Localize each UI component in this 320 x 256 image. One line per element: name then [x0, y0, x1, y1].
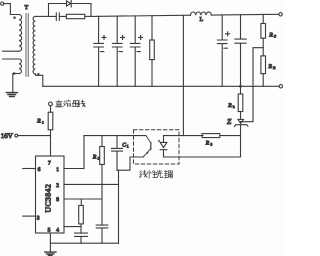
svg-text:Z: Z [227, 117, 232, 126]
IC UC3842 [36, 156, 65, 233]
snubber right edge [90, 4, 92, 17]
resistor snubber [66, 14, 85, 18]
wire divider tap [241, 48, 264, 122]
resistor bleed [151, 16, 153, 87]
pin 8 wire [64, 198, 102, 200]
terminal 16V [15, 134, 18, 137]
optocoupler dashed box [134, 130, 180, 164]
svg-text:1: 1 [56, 167, 59, 173]
svg-text:3: 3 [211, 143, 213, 147]
terminal DC bus [49, 102, 53, 106]
resistor RF [262, 14, 264, 55]
svg-text:R: R [268, 64, 273, 70]
pin 3 stub [23, 215, 36, 217]
ground bus wire [50, 242, 118, 244]
svg-text:F: F [274, 35, 276, 39]
capacitor Ct [75, 233, 88, 243]
性 [147, 171, 157, 179]
svg-text:4: 4 [56, 227, 59, 233]
svg-text:6: 6 [38, 167, 41, 173]
直 [56, 100, 63, 107]
capacitor C out1 [217, 15, 229, 86]
opto LED [160, 136, 167, 157]
inductor L [191, 12, 212, 15]
label 线性光耦 [140, 170, 173, 178]
capacitor C out2 [235, 15, 246, 87]
diode D snubber [67, 1, 72, 8]
input terminal [1, 2, 4, 5]
snubber top branch wire [49, 3, 92, 5]
wire 16V to pin7 node [18, 135, 51, 137]
wire R3 to zener node [221, 135, 241, 137]
pin 1 wire [64, 136, 84, 169]
wire secondary top to snubber [35, 15, 48, 17]
svg-text:1: 1 [127, 144, 129, 149]
node dot secondary bottom [37, 73, 39, 75]
top bus wire [91, 15, 191, 16]
node dot bus/Rb [239, 85, 242, 88]
svg-text:3: 3 [37, 216, 40, 222]
svg-text:R: R [92, 155, 97, 161]
svg-text:T: T [25, 5, 29, 11]
output terminal + [279, 13, 282, 16]
output terminal - [279, 85, 282, 88]
node dot primary bottom [13, 72, 15, 74]
capacitor C bulk3 [130, 16, 142, 86]
流 [64, 100, 71, 107]
resistor RE [261, 56, 266, 74]
pin 2 wire [64, 183, 119, 185]
光 [156, 170, 163, 178]
capacitor C bulk2 [112, 16, 124, 86]
svg-text:R: R [268, 33, 273, 39]
label DC bus (直流母线) [56, 100, 86, 107]
svg-text:8: 8 [56, 197, 59, 203]
wire FB line [84, 135, 146, 137]
wire DC bus terminal to R1 [50, 106, 52, 112]
pin 4 wire [64, 226, 81, 228]
snubber box left edge [48, 4, 50, 17]
top bus wire after L [211, 13, 279, 16]
wire input to primary top [4, 4, 19, 15]
svg-text:L: L [200, 17, 204, 23]
resistor R2 [101, 136, 103, 147]
wire secondary bottom to bottom bus [35, 74, 43, 86]
ground (IC) [45, 252, 56, 255]
bottom bus wire [43, 85, 279, 87]
capacitor snubber [49, 13, 67, 20]
线 [78, 100, 85, 107]
耦 [164, 170, 172, 178]
opto phototransistor [130, 135, 151, 157]
transformer core [26, 14, 28, 77]
arrowhead emitter [146, 152, 148, 154]
resistor Rb [240, 86, 242, 94]
svg-text:b: b [233, 105, 235, 109]
wire emitter step [117, 157, 144, 170]
transformer secondary [33, 16, 35, 73]
svg-text:7: 7 [48, 160, 51, 166]
zener Z [234, 112, 248, 158]
wire LED cathode line [164, 156, 241, 158]
wire LED anode [164, 135, 204, 137]
svg-text:E: E [273, 66, 276, 70]
transformer T primary coil 1 [19, 15, 22, 52]
svg-text:R: R [227, 103, 232, 109]
resistor R1 [48, 112, 53, 130]
capacitor C bulk1 [94, 16, 106, 86]
node dot primary top [13, 17, 15, 19]
capacitor bypass (pin8) [96, 225, 108, 243]
svg-text:2: 2 [56, 183, 59, 189]
svg-text:2: 2 [98, 157, 100, 161]
wire primary bottom to ground [13, 74, 19, 93]
wire primary tap upper [3, 50, 19, 52]
svg-text:UC3842: UC3842 [44, 184, 53, 213]
母 [73, 101, 80, 107]
wire R1 to pin7 [50, 130, 52, 156]
svg-text:1: 1 [42, 121, 44, 125]
svg-text:R: R [205, 141, 210, 147]
resistor Rt [80, 199, 82, 206]
wire bus drop to opto [182, 15, 184, 135]
pin 6 stub [23, 168, 36, 170]
wire C1 node to ground [118, 170, 120, 243]
transformer T primary coil 2 [19, 59, 21, 74]
svg-text:R: R [36, 119, 41, 125]
线 [140, 170, 148, 177]
resistor R3 [202, 134, 220, 138]
ground (transformer) [6, 93, 17, 97]
svg-text:16V: 16V [1, 132, 13, 140]
wire primary tap lower [3, 58, 19, 60]
capacitor C1 [112, 136, 123, 171]
LED arrow tick [159, 140, 161, 142]
